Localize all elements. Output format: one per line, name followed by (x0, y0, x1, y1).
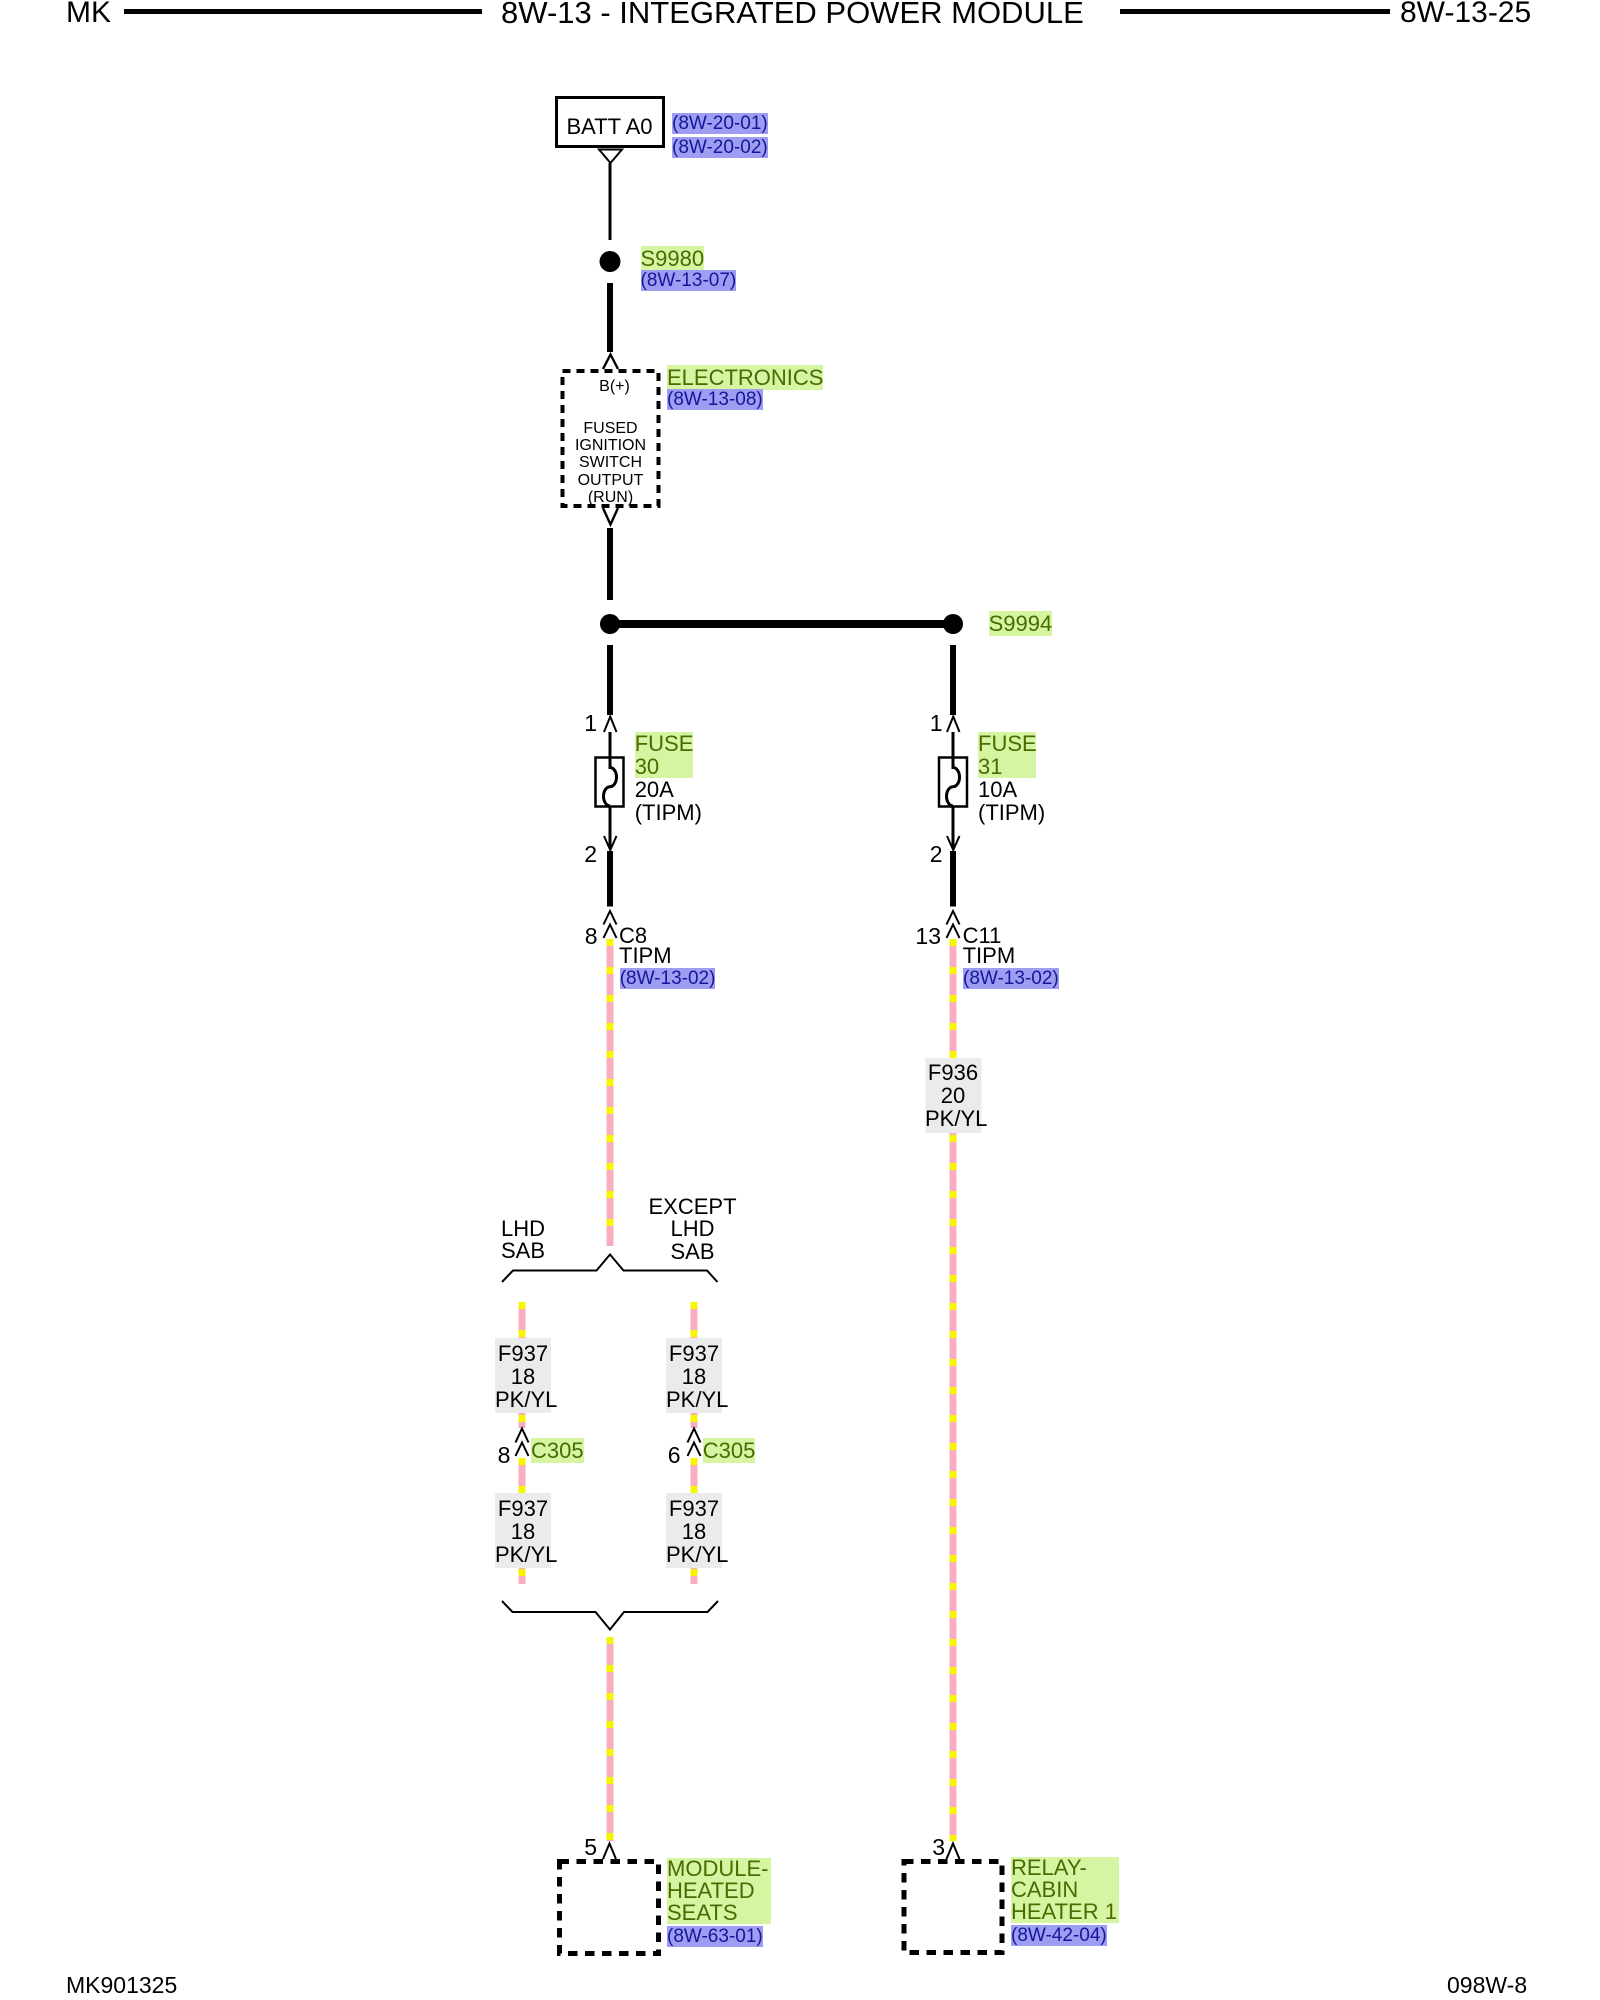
split brace upper (502, 1255, 718, 1283)
module heated seats pin 5 number (567, 1836, 597, 1859)
variant label EXCEPT LHD SAB (642, 1196, 743, 1263)
component label MODULE-HEATED SEATS (667, 1858, 771, 1948)
fuse 30 label (635, 732, 702, 824)
wire label F937 lower-right (666, 1497, 722, 1567)
header title center (501, 0, 1084, 28)
module heated seats pin 5 chevron (603, 1844, 616, 1860)
pin label B(+) (566, 378, 663, 395)
connector C11 label block (963, 926, 1016, 966)
wire BATT A0 to S9980 (609, 163, 612, 240)
wire fuse 31 pin 2 to C11 (950, 851, 956, 907)
wire FUSED box to S9994 (607, 528, 613, 600)
wire label box F937 upper-right (666, 1338, 722, 1413)
fuse 30 pin 1 chevron (604, 717, 617, 733)
relay cabin heater pin 3 chevron (947, 1844, 960, 1860)
reference (8W-13-02) at C11 (963, 969, 1059, 989)
reference (8W-13-02) at C8 (620, 969, 716, 989)
header rule right (1120, 9, 1390, 14)
header title MK (66, 0, 111, 28)
relay cabin heater pin 3 number (915, 1836, 945, 1859)
fuse 31 body (939, 758, 967, 807)
wire fuse 30 pin 2 to C8 (607, 851, 613, 907)
wire fuse 30 to pin 2 (609, 806, 612, 848)
component label BATT A0 (556, 116, 663, 138)
connector C8 double chevron (604, 911, 617, 938)
wire EXCEPT branch segment 1 (691, 1302, 698, 1338)
wire F937 PK/YL from C8 to split (607, 939, 614, 1246)
wire EXCEPT branch segment 2 (691, 1413, 698, 1428)
fuse 31 label (978, 732, 1045, 824)
fuse 30 pin 1 number (567, 712, 597, 735)
wire S9980 to fused ignition output (607, 283, 613, 352)
reference (8W-20-02) (672, 138, 768, 158)
splice S9994 bus wire (610, 620, 953, 628)
fuse 31 pin 2 number (913, 843, 943, 866)
splice label S9994 (989, 614, 1053, 634)
wire label box F936 (926, 1058, 982, 1133)
connector C8 pin 8 number (568, 925, 598, 948)
connector triangle below BATT A0 (599, 150, 622, 164)
connector C305 right double chevron (688, 1429, 701, 1457)
fuse 30 body (596, 758, 624, 807)
wire label F937 upper-left (495, 1342, 551, 1412)
wire F936 PK/YL from C11 to relay (950, 939, 957, 1841)
splice S9994 left junction (600, 614, 620, 634)
battery feed box BATT A0 (557, 98, 664, 147)
connector C8 label block (619, 926, 672, 966)
chevron into FUSED box (603, 355, 618, 370)
connector C11 pin 13 number (911, 925, 941, 948)
header page number (1400, 0, 1531, 28)
wire EXCEPT branch segment 4 (691, 1568, 698, 1584)
splice S9994 right junction (943, 614, 963, 634)
wire label F937 upper-right (666, 1342, 722, 1412)
wire EXCEPT branch segment 3 (691, 1458, 698, 1493)
wire label box F937 lower-right (666, 1493, 722, 1568)
wire pin1 to fuse 30 (609, 732, 612, 758)
header rule left (124, 9, 482, 14)
wire label F936 20 PK/YL (925, 1061, 981, 1130)
connector C305 left label (531, 1441, 584, 1461)
footer sheet code MK901325 (66, 1974, 177, 1997)
connector C305 left double chevron (516, 1429, 529, 1457)
fuse 30 pin 2 chevron (604, 836, 617, 850)
connector C305 right pin 6 number (651, 1444, 681, 1467)
connector C305 right label (703, 1441, 756, 1461)
wire merged to module heated seats (607, 1637, 614, 1841)
footer drawing number 098W-8 (1447, 1974, 1527, 1997)
fuse 31 pin 2 chevron (947, 836, 960, 850)
splice S9980 (600, 251, 621, 272)
wire LHD SAB branch segment 2 (519, 1413, 526, 1428)
wire LHD SAB branch segment 4 (519, 1568, 526, 1584)
wire S9994 to fuse 31 pin 1 (950, 645, 956, 715)
connector C305 left pin 8 number (480, 1444, 510, 1467)
merge brace lower (502, 1601, 718, 1630)
wire fuse 31 to pin 2 (952, 806, 955, 848)
relay cabin heater box (dashed) (904, 1862, 1002, 1953)
connector C11 double chevron (947, 911, 960, 938)
reference (8W-20-01) (672, 114, 768, 134)
wire label F937 lower-left (495, 1497, 551, 1567)
component label ELECTRONICS (667, 368, 823, 410)
variant label LHD SAB (493, 1218, 553, 1262)
wire LHD SAB branch segment 3 (519, 1458, 526, 1493)
wire label box F937 upper-left (495, 1338, 551, 1413)
fuse 30 pin 2 number (567, 843, 597, 866)
wire label box F937 lower-left (495, 1493, 551, 1568)
fused ignition switch output box (dashed) (563, 371, 659, 506)
module heated seats box (dashed) (560, 1862, 659, 1954)
wire LHD SAB branch segment 1 (519, 1302, 526, 1338)
chevron out of FUSED box (603, 508, 618, 525)
component label RELAY-CABIN HEATER 1 (1011, 1857, 1119, 1948)
circuit function label FUSED IGNITION SWITCH OUTPUT (RUN) (562, 420, 659, 506)
fuse 31 pin 1 chevron (947, 717, 960, 733)
wire pin1 to fuse 31 (952, 732, 955, 758)
wire S9994 to fuse 30 pin 1 (607, 645, 613, 715)
splice label S9980 (641, 249, 737, 291)
fuse 31 pin 1 number (913, 712, 943, 735)
